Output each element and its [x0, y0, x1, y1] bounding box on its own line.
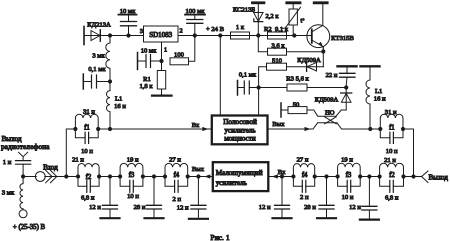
wire 3,6к row [258, 36, 323, 67]
ground [273, 217, 292, 219]
svg-text:21 н: 21 н [72, 157, 84, 164]
svg-text:50: 50 [293, 101, 300, 108]
svg-text:12 н: 12 н [89, 204, 101, 211]
svg-text:19 н: 19 н [127, 157, 139, 164]
svg-text:КД509А: КД509А [315, 97, 339, 104]
svg-text:f4: f4 [173, 172, 179, 179]
svg-text:1: 1 [164, 47, 167, 54]
wire [315, 176, 338, 178]
node E [292, 33, 296, 37]
svg-text:радиотелефона: радиотелефона [1, 143, 50, 151]
svg-text:усилитель: усилитель [216, 179, 248, 187]
svg-text:10 п: 10 п [81, 148, 93, 155]
svg-text:R3 5,6 к: R3 5,6 к [286, 76, 309, 83]
wire feed down to amp block [258, 88, 260, 116]
ground [189, 218, 208, 220]
node K [108, 79, 112, 83]
svg-text:SD1083: SD1083 [149, 31, 172, 39]
svg-text:КД509А: КД509А [297, 57, 321, 64]
svg-text:Вх: Вх [192, 122, 200, 129]
svg-text:27 н: 27 н [169, 157, 181, 164]
wire [100, 35, 143, 37]
ground (R1) [152, 94, 172, 96]
wire f1 left / node to L1 [66, 129, 110, 174]
wire [360, 176, 379, 178]
svg-text:f4: f4 [302, 172, 308, 179]
svg-text:КС213Б: КС213Б [233, 6, 256, 13]
svg-text:19 н: 19 н [341, 157, 353, 164]
node N [64, 174, 68, 178]
node T [367, 174, 371, 178]
svg-text:КД213А: КД213А [87, 21, 111, 28]
svg-text:f3: f3 [129, 172, 135, 179]
svg-text:2 п: 2 п [300, 194, 309, 201]
svg-text:3 мк: 3 мк [92, 52, 105, 59]
svg-text:2,2 к: 2,2 к [265, 13, 279, 20]
svg-text:6,8 н: 6,8 н [385, 195, 399, 202]
svg-text:+ 24 В: + 24 В [206, 26, 225, 33]
svg-text:22 н: 22 н [326, 72, 338, 79]
node +24V [218, 33, 222, 37]
diode КД213А [91, 31, 100, 41]
svg-text:10 п: 10 п [386, 148, 398, 155]
svg-text:НО: НО [325, 109, 335, 116]
ground [360, 219, 379, 221]
node R [280, 174, 284, 178]
svg-text:КТ315В: КТ315В [331, 35, 354, 42]
arrow right on Вых wire [305, 127, 311, 131]
switch cross [325, 117, 337, 124]
svg-text:12 н: 12 н [259, 204, 271, 211]
svg-text:1,8 к: 1,8 к [139, 83, 153, 90]
svg-text:L1: L1 [115, 95, 122, 102]
node I (L1 right bottom) [368, 127, 372, 131]
svg-text:f2: f2 [389, 172, 395, 179]
wire [99, 176, 120, 178]
bus wire bottom left [66, 176, 78, 178]
wire f1 right to output bus [403, 129, 414, 177]
svg-text:Выход: Выход [2, 135, 22, 143]
svg-text:L1: L1 [375, 88, 382, 95]
svg-text:12 н: 12 н [349, 204, 361, 211]
ground [101, 217, 120, 219]
svg-text:16 н: 16 н [374, 96, 386, 103]
svg-text:Малошумящий: Малошумящий [216, 169, 263, 177]
wire [178, 35, 312, 37]
node G [257, 85, 261, 89]
svg-text:10 н: 10 н [342, 194, 354, 201]
node O [108, 174, 112, 178]
svg-text:1 к: 1 к [236, 24, 245, 31]
svg-text:мощности: мощности [224, 135, 256, 143]
svg-text:t°: t° [300, 18, 305, 25]
regulator U1 SD1083 [144, 26, 179, 42]
wire to output [404, 176, 422, 178]
svg-text:+ (25-35) В: + (25-35) В [13, 224, 46, 231]
svg-text:0,1 мк: 0,1 мк [88, 66, 106, 73]
svg-text:10 п: 10 п [127, 193, 139, 200]
wire [84, 35, 100, 37]
wire Вых of power amp with switch lower contact [268, 123, 371, 129]
wire +24V feed down to amp block [219, 36, 221, 116]
svg-text:Вых: Вых [272, 121, 285, 128]
svg-text:f3: f3 [346, 172, 352, 179]
amplifier block Малошумящий усилитель [213, 162, 268, 191]
node L [159, 59, 163, 63]
svg-text:28 н: 28 н [304, 204, 316, 211]
svg-text:2: 2 [179, 28, 182, 35]
svg-text:Полосовой: Полосовой [223, 118, 257, 126]
svg-text:6,8 н: 6,8 н [81, 195, 95, 202]
svg-text:1 н: 1 н [3, 159, 12, 166]
svg-text:Рис. 1: Рис. 1 [210, 233, 229, 241]
inductor L1 16 н (left) [107, 84, 110, 127]
svg-text:2 п: 2 п [173, 196, 182, 203]
ground [317, 217, 336, 219]
svg-text:Вых: Вых [192, 166, 205, 173]
node M [21, 174, 25, 178]
node B [126, 33, 130, 37]
wire Вых from МШУ [188, 176, 212, 178]
svg-text:усилитель: усилитель [224, 126, 256, 134]
ground [145, 217, 164, 219]
svg-text:28 н: 28 н [134, 204, 146, 211]
node U [411, 174, 415, 178]
node A [108, 33, 112, 37]
amplifier block Полосовой усилитель мощности [212, 116, 268, 145]
node F emitter [321, 49, 325, 53]
svg-text:21 н: 21 н [384, 157, 396, 164]
svg-text:12 н: 12 н [177, 205, 189, 212]
node S [324, 174, 328, 178]
node C [193, 33, 197, 37]
wire [143, 176, 165, 178]
wire [23, 176, 36, 178]
svg-text:10 мк: 10 мк [141, 47, 157, 54]
inductor L1 16 н (right) [361, 65, 380, 67]
node J [108, 127, 112, 131]
node D [256, 33, 260, 37]
node H [344, 85, 348, 89]
svg-text:Выход: Выход [429, 173, 449, 181]
output jack Выход [422, 171, 428, 183]
svg-text:27 н: 27 н [297, 157, 309, 164]
wire [370, 128, 380, 130]
svg-text:R1: R1 [143, 76, 151, 83]
transistor Q1 КТ315В [307, 25, 330, 48]
node P [152, 174, 156, 178]
arrow left [204, 174, 210, 178]
svg-text:f1: f1 [389, 125, 395, 132]
node Q [196, 174, 200, 178]
svg-text:0,1 мк: 0,1 мк [239, 72, 257, 79]
svg-text:16 н: 16 н [114, 103, 126, 110]
input terminal bar top-left [83, 27, 85, 45]
svg-text:f1: f1 [84, 125, 90, 132]
terminal + (25-35) В [19, 210, 27, 218]
svg-text:3: 3 [140, 28, 143, 35]
svg-text:3 мк: 3 мк [2, 190, 15, 197]
